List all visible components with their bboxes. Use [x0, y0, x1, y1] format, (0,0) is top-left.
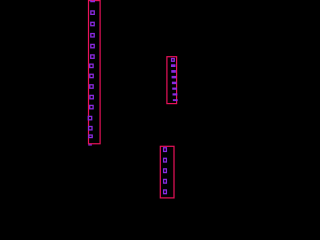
pin pad 8 (J2): [173, 99, 178, 101]
reference label dash below J1: [88, 144, 92, 145]
pin pad 12 (J1): [88, 116, 91, 119]
pin pad 10 (J1): [90, 95, 93, 98]
pin pad 4 (J2): [172, 76, 177, 79]
pin pad 2 (J2): [171, 64, 176, 67]
pin pad 4 (J1): [91, 34, 94, 37]
connector J2 body: [167, 57, 177, 104]
pin pad 7 (J1): [90, 64, 93, 67]
pin pad 3 (J2): [171, 70, 176, 73]
pin pad 2 (J3): [164, 158, 167, 162]
pin pad 7 (J2): [173, 93, 178, 95]
connector J3 body: [160, 146, 174, 198]
pin pad 1 (J3): [164, 148, 167, 152]
pin pad 6 (J1): [91, 55, 94, 58]
pin pad 13 (J1): [89, 127, 92, 130]
connector J1 body: [89, 1, 101, 144]
pin pad 5 (J3): [164, 190, 167, 194]
pin pad 1 (J2): [172, 59, 175, 62]
pin pad 4 (J3): [164, 179, 167, 183]
pin pad 9 (J1): [90, 85, 93, 88]
pin pad 3 (J3): [164, 169, 167, 173]
pin pad 5 (J1): [91, 44, 94, 47]
pin pad 8 (J1): [90, 74, 93, 77]
pin pad 3 (J1): [91, 22, 94, 25]
pin pad 1 (J1): [91, 0, 94, 2]
pin pad 5 (J2): [172, 82, 177, 85]
pin pad 14 (J1): [89, 135, 92, 138]
pin pad 2 (J1): [91, 11, 94, 14]
pin pad 6 (J2): [172, 88, 177, 90]
pin pad 11 (J1): [90, 105, 93, 108]
